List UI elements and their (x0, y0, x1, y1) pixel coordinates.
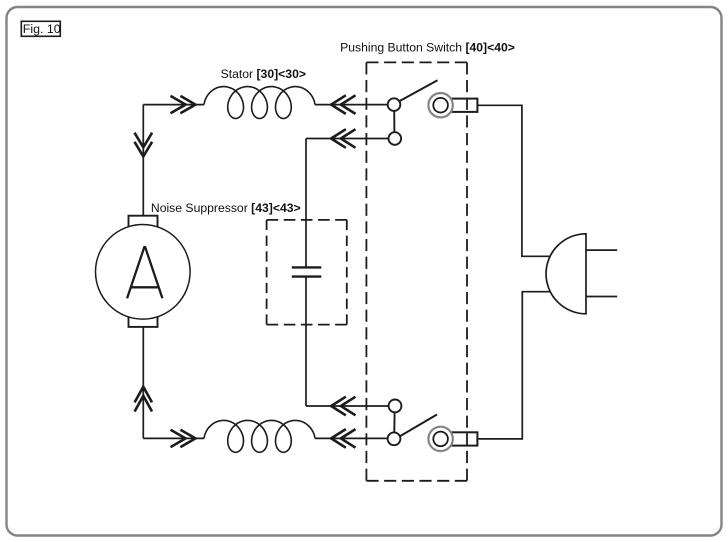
contact T1 (388, 98, 401, 111)
svg-text:Pushing Button Switch [40]<40>: Pushing Button Switch [40]<40> (340, 41, 515, 55)
contact B1 upper (389, 400, 402, 413)
arrow up pair on left vertical lower wire (135, 387, 152, 412)
arrow right pair on top-left wire (171, 96, 196, 113)
plug prong top (586, 249, 617, 251)
switch arm bottom (400, 415, 437, 437)
motor letter A (127, 247, 162, 298)
inductor L1 stator top coil (204, 87, 315, 119)
arrow left pair on branch top wire (331, 129, 355, 148)
plug prong bottom (586, 296, 617, 298)
motor M1 (armature) (96, 216, 191, 327)
switch top pole (388, 80, 478, 145)
wire branch bottom horizontal (to bottom switch upper contact) (306, 405, 389, 407)
switch arm top (399, 80, 437, 101)
svg-text:Fig. 10: Fig. 10 (23, 22, 61, 36)
button inner circle top (433, 98, 448, 113)
arrow left pair on branch bottom wire (331, 397, 355, 416)
wire switch bottom to plug (478, 292, 552, 439)
button inner circle bottom (433, 432, 448, 447)
button outer circle bottom (428, 427, 452, 451)
wire bottom horizontal left segment (143, 437, 204, 439)
wire bottom horizontal right segment (coil to switch) (315, 437, 388, 439)
wire top horizontal left segment (143, 104, 204, 106)
button actuator rect bottom (447, 432, 477, 445)
capacitor C1 plates (292, 267, 322, 276)
button actuator rect top (447, 99, 477, 112)
plug P1 body (546, 234, 586, 314)
Fig. 10 label box (21, 21, 60, 36)
wire top horizontal right segment (stator to switch) (315, 104, 388, 106)
arrow right pair on bottom-left wire (171, 430, 196, 447)
wire branch top horizontal (to second contact) (306, 138, 389, 140)
svg-text:Stator [30]<30>: Stator [30]<30> (221, 67, 306, 81)
arrow down pair on left vertical wire (135, 133, 153, 157)
contact T2 (389, 132, 402, 145)
arrow left pair on coil-switch bottom wire (331, 429, 355, 448)
wire switch top to plug (478, 105, 552, 256)
inductor L2 stator bottom coil (204, 420, 315, 452)
wire contact link vertical (393, 111, 395, 132)
switch bottom pole (388, 400, 478, 452)
contact B2 lower (388, 432, 401, 445)
wire contact link vertical (393, 412, 395, 432)
wire left vertical upper segment (142, 105, 144, 216)
button outer circle top (428, 93, 452, 117)
wire left vertical lower segment (142, 327, 144, 438)
arrow left pair on stator-switch wire (331, 95, 355, 114)
capacitor C1 dashed enclosure (267, 220, 347, 325)
svg-text:Noise Suppressor [43]<43>: Noise Suppressor [43]<43> (151, 201, 301, 215)
switch S dashed enclosure (366, 62, 467, 480)
wire branch vertical upper (to capacitor) (305, 139, 307, 268)
wire branch vertical lower (capacitor down) (305, 277, 307, 406)
